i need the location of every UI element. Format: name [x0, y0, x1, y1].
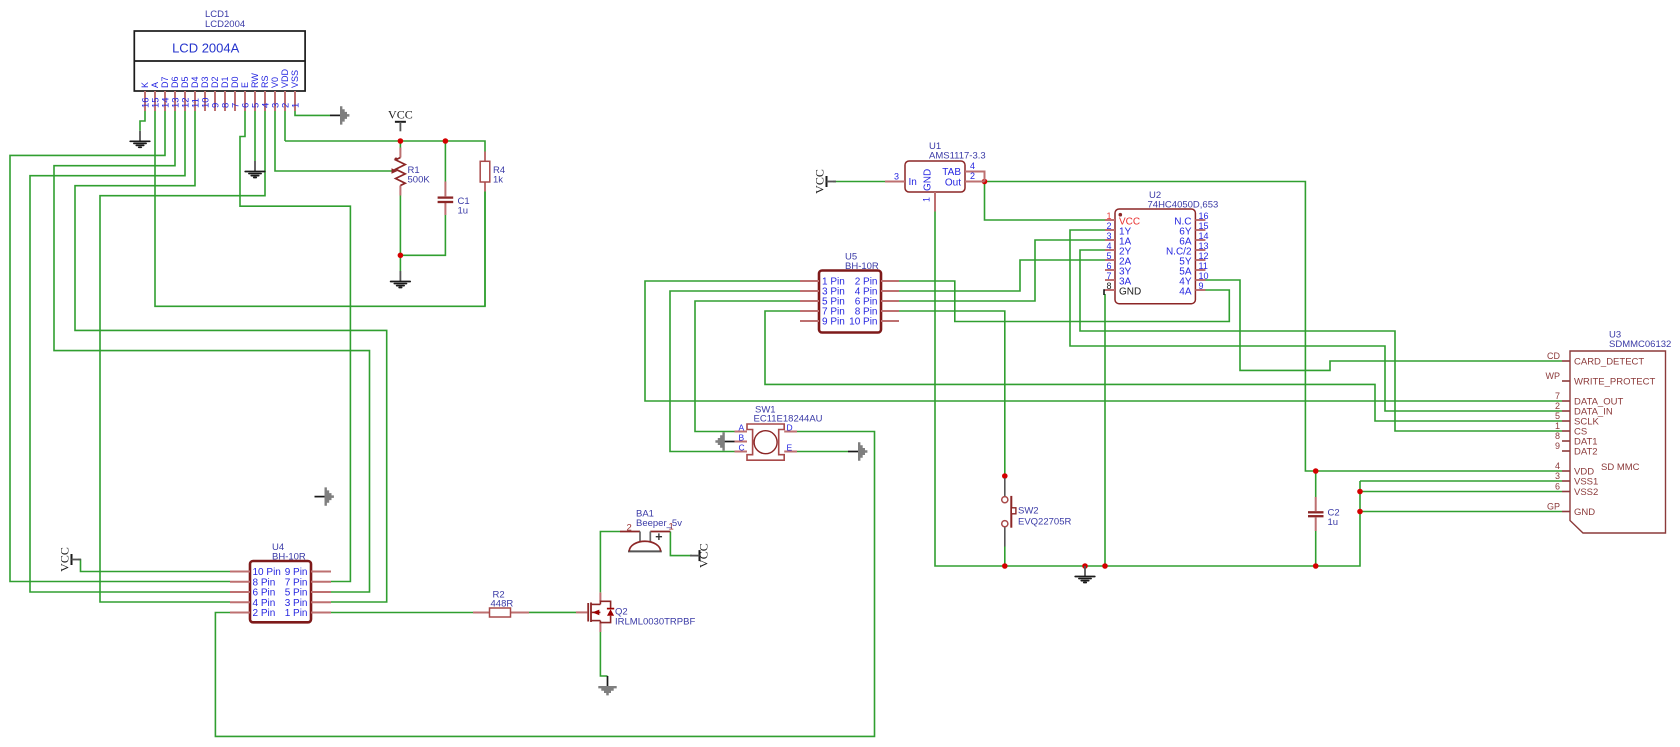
svg-text:4A: 4A: [1179, 287, 1192, 298]
wire U2 GND pin8 elbow: [1104, 290, 1106, 295]
resistor R2: [473, 608, 529, 617]
wire U1 Out junction to C2 and U3 VDD: [985, 182, 1563, 472]
svg-text:10: 10: [1199, 271, 1209, 281]
svg-text:RW: RW: [250, 73, 260, 88]
svg-text:E: E: [240, 82, 250, 88]
svg-text:VCC: VCC: [57, 547, 71, 572]
wire LCD K pin16 to ground: [140, 111, 145, 131]
svg-text:VCC: VCC: [697, 543, 711, 568]
svg-text:7: 7: [1555, 391, 1560, 401]
svg-text:4: 4: [970, 161, 975, 171]
wire LCD D6 pin13 to U4 pin5: [54, 111, 370, 592]
power flag VCC U4: [57, 547, 81, 572]
svg-text:SD MMC: SD MMC: [1601, 462, 1640, 473]
svg-text:3: 3: [894, 172, 899, 182]
ground arrow LCD VSS: [330, 106, 349, 124]
capacitor C1: [438, 182, 454, 216]
wire U2 GND pin8 down to rail: [1104, 294, 1106, 566]
svg-text:5: 5: [1106, 251, 1111, 261]
junction R1 bottom node: [398, 253, 404, 259]
svg-text:GND: GND: [923, 169, 934, 191]
svg-text:1u: 1u: [458, 206, 469, 217]
wire LCD VSS pin1 to ground arrow: [295, 111, 330, 115]
wire U2 1Y pin2 to U3 DATA_IN: [1070, 230, 1562, 411]
svg-text:7: 7: [1106, 271, 1111, 281]
svg-text:D3: D3: [200, 76, 210, 88]
svg-text:1 Pin: 1 Pin: [285, 608, 308, 619]
wire SW1 E to ground arrow: [797, 451, 848, 453]
ground arrow floating: [315, 487, 334, 505]
resistor R4: [480, 152, 490, 192]
junction C2 top at VDD wire: [1313, 468, 1319, 474]
svg-text:2 Pin: 2 Pin: [253, 608, 276, 619]
svg-text:9: 9: [1199, 281, 1204, 291]
svg-text:2: 2: [1555, 401, 1560, 411]
svg-text:GND: GND: [1119, 287, 1141, 298]
ground arrow SW1 B: [715, 432, 734, 450]
svg-text:B: B: [739, 433, 745, 443]
SD card socket U3: [1562, 351, 1666, 533]
svg-text:+: +: [655, 530, 662, 544]
junction ground rail at ground symbol: [1082, 563, 1088, 569]
svg-text:5: 5: [1555, 411, 1560, 421]
wire R4 bottom: [484, 192, 486, 307]
svg-text:GND: GND: [1574, 507, 1595, 518]
wire U2 4Y pin10 to U3 CARD_DETECT: [1205, 280, 1562, 370]
svg-text:IRLML0030TRPBF: IRLML0030TRPBF: [615, 617, 695, 628]
svg-text:E: E: [787, 443, 793, 453]
wire C1 top: [444, 141, 446, 182]
svg-text:14: 14: [1199, 231, 1209, 241]
wire U3 VSS2 to ground column: [1360, 491, 1562, 493]
svg-text:13: 13: [1199, 241, 1209, 251]
svg-text:D4: D4: [190, 76, 200, 88]
svg-text:6: 6: [1555, 482, 1560, 492]
svg-text:1k: 1k: [493, 175, 503, 186]
svg-text:VSS2: VSS2: [1574, 487, 1598, 498]
svg-text:SW2: SW2: [1018, 506, 1039, 517]
svg-text:V0: V0: [270, 77, 280, 88]
svg-text:K: K: [140, 82, 150, 88]
svg-text:BH-10R: BH-10R: [845, 261, 879, 272]
svg-text:TAB: TAB: [942, 167, 961, 178]
svg-text:WRITE_PROTECT: WRITE_PROTECT: [1574, 377, 1655, 388]
junction U1 Out node: [982, 179, 988, 185]
svg-text:10 Pin: 10 Pin: [849, 317, 877, 328]
wire VCC rail to R4 top: [285, 141, 485, 152]
svg-text:3: 3: [1106, 231, 1111, 241]
svg-text:448R: 448R: [491, 599, 514, 610]
rotary encoder SW1: [735, 424, 798, 460]
wire LCD E pin6 to U4 pin7: [240, 111, 350, 582]
pushbutton SW2: [1002, 478, 1016, 547]
wire R2 to Q2 gate: [529, 611, 576, 613]
svg-text:VCC: VCC: [388, 108, 413, 122]
svg-text:VDD: VDD: [280, 68, 290, 88]
LCD1 pin labels: [140, 68, 302, 108]
wire U3 GND to ground column: [1360, 511, 1562, 513]
LCD module LCD1 body: [134, 31, 305, 91]
svg-text:2: 2: [970, 171, 975, 181]
svg-text:EC11E18244AU: EC11E18244AU: [754, 414, 823, 425]
wire U2 1A pin3 to U5 pin6: [899, 240, 1105, 301]
svg-text:8: 8: [1106, 281, 1111, 291]
buffer IC U2: [1105, 209, 1205, 304]
svg-text:SDMMC06132: SDMMC06132: [1609, 339, 1671, 350]
svg-text:1: 1: [1106, 211, 1111, 221]
ground arrow SW1 E: [848, 442, 867, 460]
svg-text:A: A: [739, 423, 745, 433]
ground rail symbol: [1075, 566, 1095, 583]
wire VCC flag to U4 pin10: [78, 560, 230, 572]
svg-text:9: 9: [1555, 441, 1560, 451]
svg-text:11: 11: [1199, 261, 1208, 271]
wire LCD VDD pin2 to VCC rail: [284, 111, 286, 141]
wire U5 pin5 to SW1 A: [695, 301, 800, 432]
svg-text:Beeper_5v: Beeper_5v: [636, 518, 682, 529]
header U5: [800, 271, 899, 333]
svg-text:2: 2: [1106, 221, 1111, 231]
wire LCD D7 pin14 to U4 pin8: [10, 111, 230, 582]
power flag VCC beeper: [690, 543, 711, 568]
svg-text:WP: WP: [1546, 371, 1561, 381]
LCD1 pins: [145, 91, 295, 111]
svg-text:RS: RS: [260, 75, 270, 88]
svg-text:CARD_DETECT: CARD_DETECT: [1574, 357, 1644, 368]
svg-text:8: 8: [1555, 431, 1560, 441]
wire C2 bottom to rail: [1315, 531, 1317, 566]
wire SW2 bottom to rail: [1004, 547, 1006, 567]
svg-text:BH-10R: BH-10R: [272, 552, 306, 563]
wire U5 pin3 to SW1 C: [670, 291, 800, 452]
svg-text:74HC4050D,653: 74HC4050D,653: [1148, 200, 1219, 211]
svg-text:D5: D5: [180, 76, 190, 88]
wire LCD RS pin4 to U4 pin4: [100, 111, 265, 602]
svg-text:EVQ22705R: EVQ22705R: [1018, 517, 1071, 528]
junction U3 GND at ground column: [1357, 509, 1363, 515]
svg-text:1u: 1u: [1328, 517, 1339, 528]
svg-text:D7: D7: [160, 76, 170, 88]
wire LCD RW pin5 to ground: [254, 111, 256, 161]
svg-text:1: 1: [922, 197, 932, 202]
power flag VCC U1 input: [812, 169, 836, 194]
svg-text:In: In: [909, 177, 917, 188]
junction VCC rail at C1: [443, 138, 449, 144]
wire U3 VSS1 to ground column: [1360, 480, 1562, 482]
junction VSS2 at ground column: [1357, 489, 1363, 495]
junction ground rail at SW2: [1002, 563, 1008, 569]
wire LCD V0 pin3 to R1 wiper: [275, 111, 392, 171]
svg-text:LCD2004: LCD2004: [205, 19, 245, 30]
wire U5 pin1 to U3 DATA_OUT: [645, 281, 1562, 401]
capacitor C2: [1308, 497, 1324, 531]
svg-text:Out: Out: [945, 178, 961, 189]
wire Q2 drain to beeper pin2: [600, 532, 620, 593]
wire VCC to U1 In: [833, 181, 885, 183]
svg-text:D2: D2: [210, 76, 220, 88]
svg-text:A: A: [150, 82, 160, 88]
svg-text:1: 1: [291, 103, 302, 108]
junction VCC rail at R1: [398, 138, 404, 144]
wire LCD D5 pin12 to U4 pin6: [30, 111, 230, 592]
junction ground rail at C2: [1313, 563, 1319, 569]
svg-text:500K: 500K: [408, 175, 431, 186]
svg-text:4: 4: [1106, 241, 1111, 251]
wire Q2 source to ground arrow: [600, 632, 607, 676]
header U4: [230, 561, 331, 622]
wire R1 bottom to ground: [399, 196, 401, 272]
wire U5 pin7 to U3 SCLK: [765, 311, 1562, 421]
svg-text:D1: D1: [220, 76, 230, 88]
wire LCD D4 pin11 to U4 pin3: [75, 111, 387, 602]
wire U2 2A pin5 to U5 pin4: [899, 260, 1105, 291]
svg-text:DAT2: DAT2: [1574, 447, 1598, 458]
wire SW1 D to U4 pin2 bottom loop: [215, 432, 874, 737]
wire U1 GND to ground rail: [935, 212, 1360, 567]
wire beeper pin1 to VCC flag: [670, 532, 692, 556]
svg-text:15: 15: [1199, 221, 1209, 231]
svg-text:C: C: [739, 443, 745, 453]
ground R1 bottom: [391, 271, 411, 288]
ground LCD RW: [245, 161, 265, 178]
ground LCD K: [130, 131, 150, 148]
svg-text:1: 1: [1555, 421, 1560, 431]
svg-text:6: 6: [1106, 261, 1111, 271]
svg-text:LCD 2004A: LCD 2004A: [172, 41, 240, 56]
svg-text:9 Pin: 9 Pin: [822, 317, 845, 328]
svg-text:AMS1117-3.3: AMS1117-3.3: [929, 151, 986, 162]
wire U5 pin8 to SW2: [899, 311, 1005, 476]
wire LCD A pin15 to R4 bottom: [155, 111, 485, 306]
potentiometer R1: [392, 148, 406, 196]
svg-text:GP: GP: [1547, 502, 1560, 512]
junction SW2 top node: [1002, 473, 1008, 479]
svg-text:VCC: VCC: [812, 169, 826, 194]
voltage regulator U1: [885, 161, 985, 212]
svg-text:D6: D6: [170, 76, 180, 88]
svg-text:12: 12: [1199, 251, 1209, 261]
svg-text:VSS: VSS: [290, 70, 300, 88]
wire U1 Out to U2 VCC pin1: [985, 182, 1106, 221]
svg-text:D0: D0: [230, 76, 240, 88]
wire R1 bottom to C1 bottom: [400, 215, 445, 255]
junction ground rail at U2 GND: [1102, 563, 1108, 569]
wire U4 pin1 to R2: [331, 612, 473, 614]
svg-text:2: 2: [627, 523, 632, 534]
power flag VCC top: [388, 108, 413, 132]
svg-text:VSS1: VSS1: [1574, 477, 1598, 488]
svg-text:CD: CD: [1547, 351, 1560, 361]
wire U2 4A pin9 to U5 pin2: [899, 281, 1229, 322]
svg-text:4: 4: [1555, 461, 1560, 471]
beeper BA1: [620, 532, 670, 552]
svg-text:3: 3: [1555, 471, 1560, 481]
wire U2 2Y pin4 to U3 CS: [1080, 250, 1562, 431]
wire R1 top: [399, 141, 401, 148]
transistor Q2: [576, 592, 614, 632]
wire C2 top: [1315, 471, 1317, 497]
ground arrow Q2 source: [598, 676, 616, 695]
svg-text:16: 16: [1199, 211, 1209, 221]
